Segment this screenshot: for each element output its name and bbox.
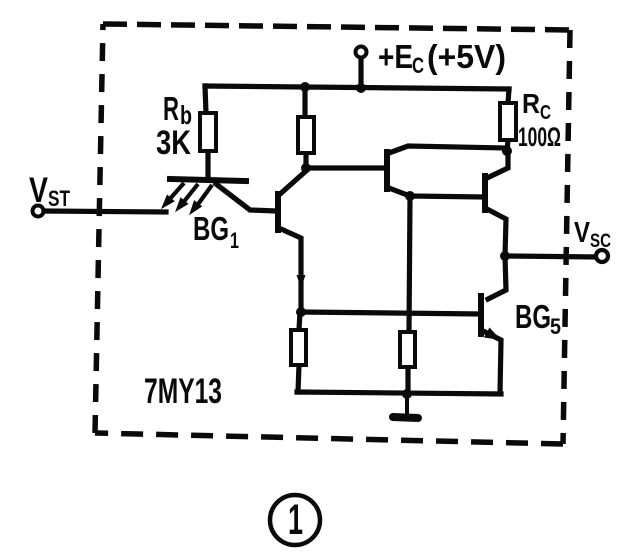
wire: node A to BG3 base [306,165,386,170]
svg-text:3K: 3K [156,124,191,162]
wire: rail to R2 top [302,87,307,117]
wire: R3 bottom to ground bus [298,365,299,392]
svg-text:V: V [574,217,591,249]
svg-text:V: V [29,171,49,210]
svg-text:7MY13: 7MY13 [144,372,222,411]
resistor Rc body [500,103,516,140]
wire: BG3 collector to Rc bottom [389,146,506,153]
svg-text:C: C [412,53,424,78]
terminal Vsc [596,250,608,262]
wire: BG3 emitter to BG4 base [389,188,483,197]
transistor BG1 emitter 3 [190,185,212,214]
figure number circled 1 [270,495,320,545]
wire: rail corner to Rc top [508,89,509,103]
svg-text:5: 5 [550,314,561,339]
wire: node D to Vsc terminal [505,256,597,257]
resistor R4 body [400,332,415,367]
node C: Rc bottom junction [502,146,512,156]
svg-text:SC: SC [590,231,611,252]
svg-text:BG: BG [515,298,551,335]
svg-text:BG: BG [193,210,229,247]
svg-text:100Ω: 100Ω [518,122,561,152]
wire: +Ec top supply rail [205,86,509,89]
wire: BG4 emitter down to node D [487,209,506,256]
wire: BG2 emitter down to node B [281,229,301,312]
transistor BG5 emitter arrow [484,328,501,341]
node B: BG2 emitter/R3 [296,307,306,317]
svg-text:R: R [522,88,540,119]
transistor BG1 multi-emitter base bar [170,179,246,181]
wire: R4 bottom to ground bus [405,367,410,394]
terminal Vst [33,206,44,217]
node: BG3 emitter/R4 [405,191,415,201]
transistor BG2 base bar [275,194,281,230]
resistor R2 body [298,117,314,153]
wire: ground bus [297,392,501,394]
wire: BG1 collector diagonal to BG2 base [216,184,277,211]
wire: BG2 collector up to node A [279,167,306,195]
svg-text:R: R [163,90,179,127]
resistor Rb body [200,113,216,151]
svg-text:1: 1 [230,228,239,253]
wire: node B to R3 top [299,312,300,330]
wire: rail to Rb top [205,86,206,113]
transistor BG3 base bar [384,152,390,189]
wire: Vst input lead [44,211,166,212]
svg-text:C: C [540,102,551,124]
node: rail-R2 junction [300,82,310,92]
transistor BG5 base bar [478,296,484,334]
svg-text:+E: +E [378,38,413,75]
ground [393,394,418,418]
wire: BG5 emitter to ground bus [483,331,501,393]
wire: BG3 emitter node down to R4 top [409,197,410,332]
svg-text:ST: ST [48,186,70,211]
transistor BG1 emitter 2 [176,184,198,211]
svg-text:(+5V): (+5V) [427,38,506,75]
svg-text:1: 1 [288,496,303,544]
wire: R2 bottom to node A [303,153,308,168]
node: ground bus junction [402,389,412,399]
wire: Rb bottom to BG1 base [205,151,210,177]
wire: BG4 collector to node C [487,152,508,178]
transistor BG2 emitter arrow [297,275,306,288]
node A: R2/BG2 collector/BG3 base [301,163,311,173]
node D: Vsc junction [500,251,510,261]
node: rail-Ec junction [356,83,366,93]
transistor BG4 base bar [482,176,488,210]
wire: +Ec terminal drop [358,58,363,88]
transistor BG1 emitter 1 [162,183,184,208]
dashed IC boundary box 7MY13 [95,24,570,444]
wire: node B to BG5 base [301,312,479,314]
resistor R3 body [291,330,306,365]
wire: node D down to BG5 collector [488,256,506,299]
wire: Rc bottom to node C [507,140,508,152]
terminal +Ec [356,47,367,58]
